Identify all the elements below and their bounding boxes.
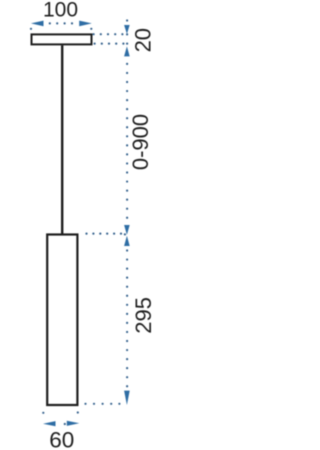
svg-text:295: 295 <box>131 297 156 334</box>
svg-text:0-900: 0-900 <box>128 114 153 170</box>
svg-text:20: 20 <box>131 28 156 52</box>
svg-text:100: 100 <box>43 0 78 21</box>
svg-text:60: 60 <box>49 427 74 450</box>
